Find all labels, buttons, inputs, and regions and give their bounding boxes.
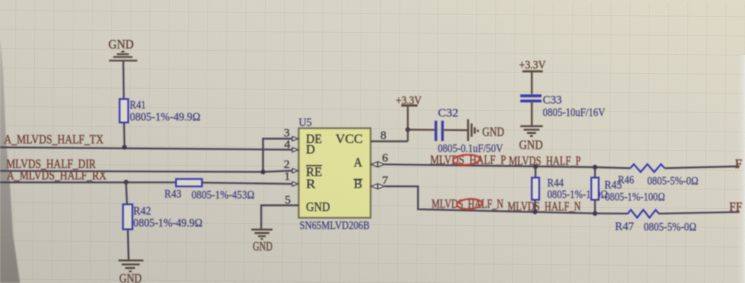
pin 2 input arrow xyxy=(292,169,298,173)
resistor R47 (zigzag) xyxy=(628,210,659,218)
wire net MLVDS_HALF_DIR xyxy=(0,171,263,172)
ground GND2 (sideways) xyxy=(468,119,478,141)
ERC marker red ellipse P xyxy=(453,154,481,166)
ground GND1 (above R41) xyxy=(109,52,137,61)
resistor R45 xyxy=(591,178,598,200)
wire VCC to C32 xyxy=(408,129,435,131)
wire N to edge FF xyxy=(659,212,740,214)
ERC marker red ellipse N xyxy=(457,198,483,210)
wire R43 to pin 1 xyxy=(202,183,293,184)
wire GND1 to R41 xyxy=(122,62,125,100)
pin 1 input arrow xyxy=(292,182,298,186)
wire +3.3V to C33 xyxy=(531,71,533,94)
ground GND5 (below R42) xyxy=(118,260,143,271)
resistor R43 xyxy=(176,179,202,186)
ground GND3 (C33) xyxy=(520,126,543,136)
wire VCC riser xyxy=(407,106,409,141)
wire pin 5 to GND xyxy=(261,205,299,229)
wire pin 8 VCC stub xyxy=(371,140,408,142)
pin 4 input arrow xyxy=(292,148,298,152)
capacitor C32 xyxy=(436,121,443,141)
junction N/R44 xyxy=(533,209,538,214)
wire R42 to GND xyxy=(127,229,130,259)
resistor R44 xyxy=(532,178,539,200)
wire pin 7 to N run xyxy=(385,186,628,213)
pin 3 input arrow xyxy=(292,137,298,141)
junction DIR xyxy=(261,170,266,175)
wire C33 to GND3 xyxy=(531,102,533,125)
wire RX to R42 xyxy=(126,182,127,204)
wire P to edge F xyxy=(665,166,740,168)
junction TX/R41 xyxy=(122,145,127,150)
wire P to R45 xyxy=(594,167,596,177)
IC U5 body xyxy=(299,128,371,218)
wire net A_MLVDS_HALF_RX (left) xyxy=(0,181,176,183)
junction RX/R42 xyxy=(124,180,129,185)
junction P/R44 xyxy=(533,164,538,169)
wire P to R44 xyxy=(535,167,537,178)
resistor R46 (zigzag) xyxy=(630,164,664,172)
junction VCC/C32 xyxy=(405,127,410,132)
wire DIR vertical to pin 3 xyxy=(263,139,293,172)
wire net A_MLVDS_HALF_TX xyxy=(0,147,293,149)
pin 6 bidir arrow xyxy=(371,162,385,167)
resistor R41 xyxy=(120,99,129,123)
wire DIR to pin 2 xyxy=(263,171,293,172)
wire net MLVDS_HALF_P xyxy=(385,164,631,168)
junction N/R45 xyxy=(593,211,598,216)
capacitor C33 xyxy=(520,96,541,101)
wire C32 to GND2 xyxy=(444,129,467,131)
wire R41 to TX net xyxy=(123,123,126,148)
power +3.3V (C32 rail) xyxy=(401,104,417,106)
wire R45 to N xyxy=(594,200,596,214)
ground GND4 (pin 5) xyxy=(251,230,272,239)
resistor R42 xyxy=(123,204,132,229)
pin 7 bidir arrow xyxy=(371,184,385,189)
wire R44 to N xyxy=(534,200,536,212)
junction P/R45 xyxy=(593,165,598,170)
